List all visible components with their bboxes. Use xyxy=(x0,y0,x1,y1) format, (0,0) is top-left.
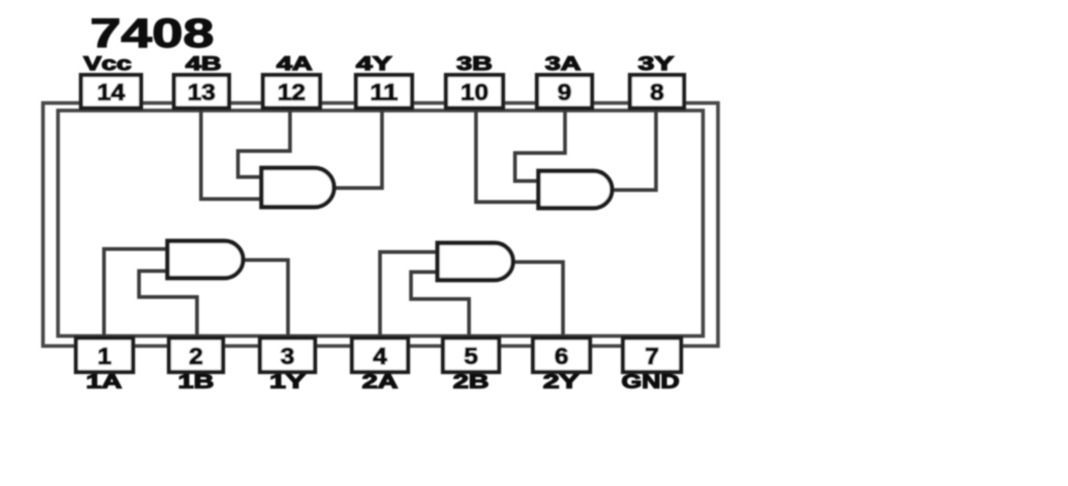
svg-text:1B: 1B xyxy=(178,372,214,393)
pin 1 box xyxy=(76,338,133,372)
svg-text:9: 9 xyxy=(558,79,572,105)
wire pin 5 to gate2 input B xyxy=(411,272,469,338)
AND gate 2 xyxy=(438,243,514,280)
svg-text:2B: 2B xyxy=(453,372,489,393)
pin 5 box xyxy=(443,338,499,372)
wire pin 2 to gate1 input B xyxy=(139,271,197,338)
svg-text:11: 11 xyxy=(370,79,398,105)
svg-text:4A: 4A xyxy=(277,54,313,75)
pin 9 box xyxy=(537,75,592,108)
svg-text:4: 4 xyxy=(373,343,387,369)
pin 7 box xyxy=(623,338,681,372)
wire pin 10 to gate3 input B xyxy=(476,108,539,202)
pin 4 box xyxy=(352,338,408,372)
pin 2 box xyxy=(169,338,223,372)
pin 10 box xyxy=(446,75,503,108)
pin 11 box xyxy=(356,75,412,108)
wire pin 12 to gate4 input A xyxy=(238,108,290,177)
svg-text:3: 3 xyxy=(281,343,295,369)
wire pin 4 to gate2 input A xyxy=(380,252,438,338)
svg-text:7408: 7408 xyxy=(90,10,214,56)
svg-text:7: 7 xyxy=(645,343,659,369)
pin 6 box xyxy=(533,338,590,372)
svg-text:4Y: 4Y xyxy=(356,54,392,75)
svg-text:13: 13 xyxy=(188,79,216,105)
IC body inner outline xyxy=(58,111,703,337)
wire pin 9 to gate3 input A xyxy=(515,108,565,181)
svg-text:4B: 4B xyxy=(186,54,222,75)
svg-text:14: 14 xyxy=(97,79,125,105)
pin 8 box xyxy=(630,75,684,108)
wire gate2 output to pin 6 xyxy=(513,262,563,338)
svg-text:3B: 3B xyxy=(457,54,493,75)
wire pin 1 to gate1 input A xyxy=(104,249,168,338)
pin 3 box xyxy=(260,338,315,372)
pin 12 box xyxy=(263,75,320,108)
IC body outer outline xyxy=(43,103,718,346)
svg-text:GND: GND xyxy=(622,372,680,393)
AND gate 3 xyxy=(539,171,613,208)
svg-text:1Y: 1Y xyxy=(270,372,306,393)
svg-text:3A: 3A xyxy=(545,54,581,75)
svg-text:Vcc: Vcc xyxy=(84,54,133,75)
wire gate1 output to pin 3 xyxy=(243,260,288,338)
wire gate3 output to pin 8 xyxy=(612,108,656,190)
svg-text:8: 8 xyxy=(650,79,664,105)
svg-text:1: 1 xyxy=(98,343,112,369)
svg-text:6: 6 xyxy=(555,343,569,369)
svg-text:12: 12 xyxy=(278,79,306,105)
svg-text:3Y: 3Y xyxy=(638,54,674,75)
wire gate4 output to pin 11 xyxy=(334,108,382,188)
pin 14 box xyxy=(81,75,141,108)
pin 13 box xyxy=(174,75,229,108)
wire pin 13 to gate4 input B xyxy=(201,108,262,199)
svg-text:2: 2 xyxy=(189,343,203,369)
svg-text:10: 10 xyxy=(461,79,489,105)
svg-text:2A: 2A xyxy=(362,372,398,393)
svg-text:2Y: 2Y xyxy=(543,372,579,393)
svg-text:1A: 1A xyxy=(86,372,122,393)
AND gate 4 xyxy=(262,168,335,207)
svg-text:5: 5 xyxy=(464,343,478,369)
AND gate 1 xyxy=(168,241,244,278)
